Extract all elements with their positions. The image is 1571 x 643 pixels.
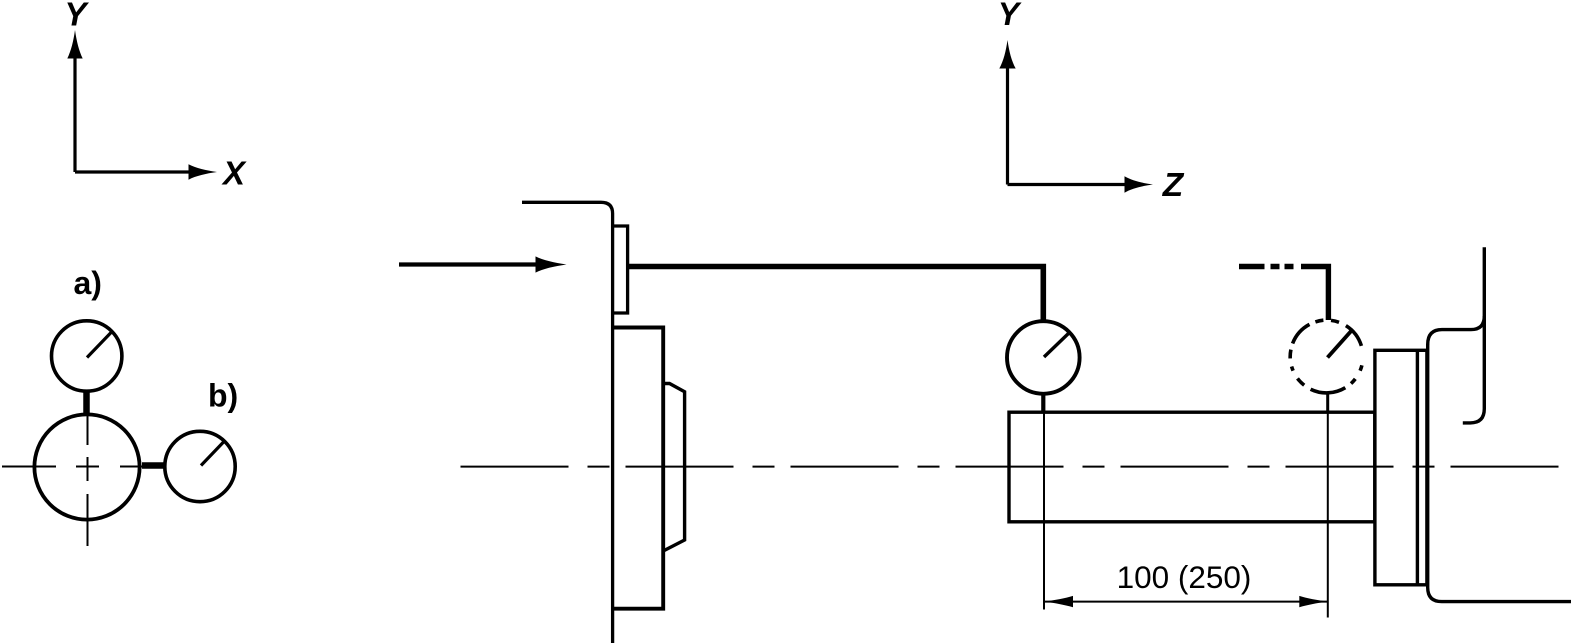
tailstock body left and bottom — [1428, 344, 1571, 602]
dial indicator a: circle — [51, 321, 121, 391]
dial indicator 1: circle — [1007, 321, 1080, 394]
axis Y-Z: Z axis line — [1008, 183, 1126, 186]
dial indicator 1: stem — [1041, 394, 1045, 412]
svg-text:Y: Y — [998, 0, 1022, 32]
chuck nose cone — [663, 384, 684, 552]
center cross vertical dashes — [87, 414, 89, 546]
tailstock break line — [1463, 247, 1485, 423]
tailstock body top edge — [1428, 316, 1485, 345]
svg-text:X: X — [221, 154, 247, 191]
dimension arrow left — [1045, 596, 1074, 607]
dial indicator a: needle — [87, 331, 113, 358]
axis Y-Z: Z arrowhead — [1125, 176, 1154, 192]
svg-text:b): b) — [208, 378, 238, 414]
svg-text:a): a) — [74, 265, 102, 301]
dimension arrow right — [1299, 596, 1327, 607]
svg-text:Z: Z — [1162, 167, 1185, 204]
direction arrow shaft — [399, 262, 537, 266]
center cross horizontal dashes — [2, 466, 142, 468]
phantom arm corner — [1301, 267, 1328, 321]
svg-text:100 (250): 100 (250) — [1117, 559, 1252, 595]
extension line left — [1043, 411, 1045, 610]
dial indicator 2: stem — [1326, 393, 1329, 412]
svg-text:Y: Y — [64, 0, 89, 33]
dial indicator b: needle — [201, 442, 224, 466]
axis X-Y: Y arrowhead — [67, 30, 82, 59]
dial indicator 1: needle — [1044, 332, 1071, 358]
dial indicator b: stem — [142, 462, 164, 469]
spindle flange — [613, 226, 628, 313]
chuck body — [613, 328, 664, 609]
tailstock plate inner line — [1416, 350, 1419, 585]
phantom arm dashes — [1239, 264, 1294, 269]
axis X-Y: X axis line — [75, 170, 190, 173]
tailstock plate — [1375, 350, 1427, 585]
dimension line — [1045, 601, 1328, 603]
axis X-Y: X arrowhead — [189, 164, 218, 179]
main centerline — [461, 466, 1561, 468]
axis Y-Z: Y arrowhead — [999, 40, 1015, 69]
dial indicator b: circle — [165, 431, 235, 501]
workpiece end-view circle — [34, 414, 139, 519]
extension line right — [1327, 411, 1329, 618]
indicator holder arm — [628, 267, 1043, 321]
axis X-Y: Y axis line — [73, 58, 76, 172]
dial indicator a: stem — [83, 391, 90, 415]
dial indicator 2: needle — [1328, 330, 1353, 358]
axis Y-Z: Y axis line — [1006, 68, 1009, 185]
headstock face outline — [522, 202, 613, 643]
test mandrel — [1009, 412, 1375, 522]
dial indicator 2: dashed circle — [1290, 320, 1362, 393]
direction arrow head — [536, 256, 567, 272]
